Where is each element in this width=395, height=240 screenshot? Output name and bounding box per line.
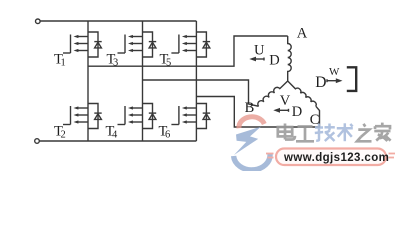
svg-text:D: D	[292, 104, 302, 120]
svg-text:www.dgjs123.com: www.dgjs123.com	[283, 152, 389, 164]
svg-text:2: 2	[61, 130, 66, 141]
svg-text:B: B	[245, 100, 255, 116]
svg-text:W: W	[329, 66, 340, 78]
svg-text:U: U	[254, 43, 265, 59]
svg-text:1: 1	[61, 58, 66, 69]
svg-text:D: D	[315, 74, 326, 91]
svg-text:D: D	[269, 53, 279, 69]
svg-text:5: 5	[166, 58, 171, 69]
svg-text:4: 4	[112, 130, 118, 141]
svg-text:V: V	[280, 93, 291, 109]
svg-text:3: 3	[113, 58, 118, 69]
svg-text:A: A	[297, 26, 308, 42]
svg-text:6: 6	[165, 130, 170, 141]
